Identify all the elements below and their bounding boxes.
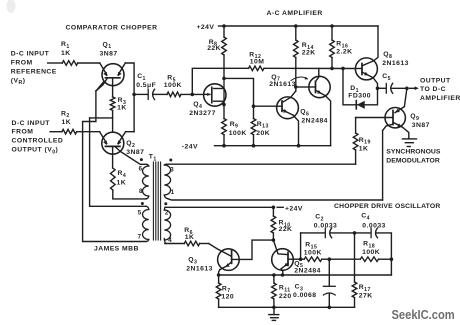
svg-text:3N87: 3N87 — [126, 149, 144, 156]
svg-text:C5: C5 — [382, 73, 391, 82]
svg-text:2: 2 — [165, 210, 169, 217]
svg-text:7: 7 — [138, 234, 142, 241]
svg-text:1K: 1K — [117, 179, 127, 186]
svg-text:Q1: Q1 — [103, 41, 112, 50]
svg-text:OUTPUT: OUTPUT — [420, 77, 451, 84]
svg-text:C1: C1 — [137, 73, 146, 82]
svg-text:5: 5 — [138, 210, 142, 217]
svg-text:1K: 1K — [117, 104, 127, 111]
svg-text:R13: R13 — [257, 121, 269, 130]
svg-text:Q6: Q6 — [300, 109, 309, 118]
svg-text:FROM: FROM — [11, 60, 33, 67]
svg-text:TO D-C: TO D-C — [420, 86, 446, 93]
svg-text:A-C AMPLIFIER: A-C AMPLIFIER — [267, 10, 323, 17]
svg-text:Q2: Q2 — [126, 140, 135, 149]
svg-text:3: 3 — [170, 166, 174, 173]
svg-text:3N87: 3N87 — [100, 50, 118, 57]
svg-text:1K: 1K — [359, 146, 369, 153]
svg-text:22K: 22K — [279, 226, 293, 233]
svg-text:2N2484: 2N2484 — [301, 117, 328, 124]
svg-text:REFERENCE: REFERENCE — [11, 69, 57, 76]
svg-text:22K: 22K — [302, 49, 316, 56]
svg-text:2N3277: 2N3277 — [189, 110, 216, 117]
svg-text:100K: 100K — [362, 249, 380, 256]
svg-text:R4: R4 — [118, 170, 127, 179]
svg-text:22K: 22K — [207, 45, 221, 52]
svg-text:Q9: Q9 — [410, 113, 419, 122]
svg-text:2N1613: 2N1613 — [269, 81, 296, 88]
svg-text:2.2K: 2.2K — [336, 49, 352, 56]
svg-text:100K: 100K — [304, 250, 322, 257]
svg-text:SeekIC.com: SeekIC.com — [392, 307, 455, 322]
svg-text:+24V: +24V — [285, 205, 303, 212]
svg-text:Q8: Q8 — [383, 51, 392, 60]
svg-text:0.0033: 0.0033 — [362, 223, 386, 230]
svg-text:D-C INPUT: D-C INPUT — [12, 120, 51, 127]
svg-text:DEMODULATOR: DEMODULATOR — [386, 158, 440, 165]
svg-text:220: 220 — [279, 293, 292, 300]
svg-text:CHOPPER DRIVE OSCILLATOR: CHOPPER DRIVE OSCILLATOR — [334, 203, 441, 210]
svg-text:R9: R9 — [230, 121, 239, 130]
svg-text:R1: R1 — [61, 41, 70, 50]
svg-text:OUTPUT (V0): OUTPUT (V0) — [12, 146, 59, 155]
svg-text:COMPARATOR CHOPPER: COMPARATOR CHOPPER — [66, 24, 158, 31]
svg-text:SYNCHRONOUS: SYNCHRONOUS — [386, 149, 441, 156]
svg-text:AMPLIFIER: AMPLIFIER — [420, 95, 460, 102]
svg-text:2N2484: 2N2484 — [294, 268, 321, 275]
svg-text:+24V: +24V — [197, 24, 215, 31]
svg-text:T1: T1 — [149, 154, 157, 163]
svg-text:1K: 1K — [185, 234, 195, 241]
svg-text:120: 120 — [221, 293, 234, 300]
svg-text:100K: 100K — [164, 82, 182, 89]
svg-text:C3: C3 — [295, 283, 304, 292]
svg-text:-24V: -24V — [182, 144, 198, 151]
svg-text:1K: 1K — [62, 119, 72, 126]
svg-text:FD300: FD300 — [348, 92, 371, 99]
svg-text:1: 1 — [171, 189, 175, 196]
svg-text:0.0068: 0.0068 — [293, 292, 317, 299]
svg-text:8: 8 — [139, 188, 143, 195]
svg-text:Q3: Q3 — [188, 256, 197, 265]
svg-text:D-C INPUT: D-C INPUT — [11, 51, 50, 58]
svg-text:Q4: Q4 — [193, 101, 202, 110]
svg-text:3N87: 3N87 — [412, 122, 430, 129]
svg-text:2N1613: 2N1613 — [186, 265, 213, 272]
svg-text:1K: 1K — [61, 50, 71, 57]
svg-text:JAMES MBB: JAMES MBB — [94, 246, 139, 253]
svg-text:27K: 27K — [359, 292, 373, 299]
svg-text:R2: R2 — [61, 110, 70, 119]
svg-text:6: 6 — [139, 166, 143, 173]
svg-text:R19: R19 — [359, 137, 371, 146]
svg-text:20K: 20K — [256, 130, 270, 137]
svg-text:100K: 100K — [229, 130, 247, 137]
svg-text:C2: C2 — [315, 214, 324, 223]
svg-text:FROM: FROM — [12, 129, 34, 136]
svg-text:10M: 10M — [250, 59, 265, 66]
svg-text:CONTROLLED: CONTROLLED — [12, 138, 64, 145]
svg-text:C4: C4 — [361, 213, 370, 222]
svg-text:2N1613: 2N1613 — [382, 60, 409, 67]
svg-text:R11: R11 — [279, 284, 291, 293]
svg-text:0.5μF: 0.5μF — [136, 82, 156, 89]
svg-text:(VR): (VR) — [11, 77, 26, 86]
